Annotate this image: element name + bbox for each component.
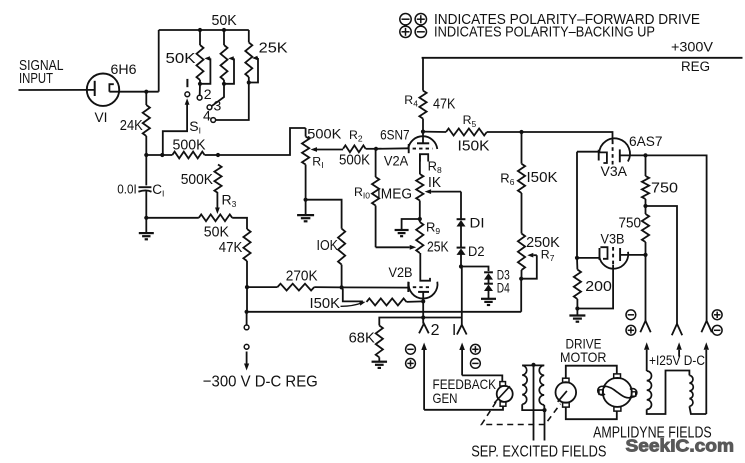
svg-text:4: 4 [203, 108, 211, 124]
terminal arrow up right [461, 350, 463, 375]
diode D1 [457, 218, 466, 220]
pot R7 wiper bracket [521, 255, 537, 279]
tube V3B grid dashes [612, 247, 614, 265]
gen brush slash [494, 386, 510, 403]
wire V1 cathode to node [109, 91, 158, 93]
polarity right chevron1 [626, 310, 636, 320]
wire arrow2 to gen top [462, 375, 502, 381]
ground C1 [145, 218, 147, 233]
wire 50K pots rail [159, 29, 249, 31]
svg-text:2: 2 [431, 322, 440, 339]
svg-text:−300 V D-C REG: −300 V D-C REG [203, 373, 318, 390]
tube V2A cathode [420, 154, 428, 161]
node D2 bottom [459, 264, 463, 268]
contact 3 [212, 84, 225, 106]
node R2 right [374, 147, 378, 151]
tube V3B left element [577, 257, 599, 259]
svg-text:6H6: 6H6 [111, 61, 137, 77]
svg-text:0.0I: 0.0I [117, 183, 137, 197]
motor armature [556, 382, 577, 403]
tube V2A plate [422, 132, 424, 144]
wire +300V rail [422, 57, 743, 59]
svg-text:SeekIC.com: SeekIC.com [626, 435, 735, 455]
node bus2 V2B [421, 315, 425, 319]
node R7 bottom [519, 277, 523, 281]
node S1 arm junction [160, 153, 164, 157]
wire bus1 [247, 311, 522, 313]
tube V3B right element [619, 248, 621, 261]
node V3B left [575, 256, 579, 260]
tube V3A right element [619, 149, 621, 162]
ground D4 [488, 291, 490, 299]
arrow amplidyne field right [705, 350, 707, 414]
node 47K bottom [245, 285, 249, 289]
pot R1 500K [305, 128, 307, 137]
contact 4 [216, 83, 249, 121]
svg-text:IK: IK [428, 174, 441, 191]
resistor R6 150K [521, 132, 523, 164]
wire to V3A grid [522, 132, 613, 141]
svg-text:47K: 47K [219, 239, 243, 256]
terminal 2 chevron [419, 324, 429, 334]
wire V3A left to V3B left [576, 152, 578, 258]
svg-text:I50K: I50K [458, 137, 490, 154]
resistor R8 1K [416, 174, 423, 201]
pot 150K [343, 289, 363, 302]
sep excited field leads [533, 365, 535, 441]
resistor 68K [376, 326, 383, 358]
svg-text:270K: 270K [286, 267, 318, 284]
terminal chevron right3 [701, 321, 711, 333]
legend line 1 polarity symbols [400, 14, 411, 25]
amplidyne right brush loop [630, 389, 637, 397]
amplidyne S-curve [603, 386, 632, 398]
resistor R10 1MEG [375, 149, 377, 177]
node V2B cathode [421, 299, 425, 303]
svg-text:SEP. EXCITED FIELDS: SEP. EXCITED FIELDS [471, 444, 606, 461]
tube V1 6H6 envelope [87, 74, 119, 106]
tube V2A grid [408, 144, 410, 153]
svg-text:D4: D4 [497, 281, 510, 296]
wire arrow1 to gen bottom [424, 406, 503, 410]
wire V2B cathode to terminal 2 [422, 301, 424, 323]
svg-text:REG: REG [681, 59, 710, 75]
ground R1 [305, 200, 307, 215]
svg-text:47K: 47K [433, 95, 455, 112]
node rail pot2 [222, 28, 226, 32]
diode D3 [484, 271, 493, 273]
resistor R4 47K [422, 58, 424, 91]
pot R1 wiper [317, 149, 343, 151]
pot 150K wiper arrow [341, 303, 363, 306]
tube V3B envelope [599, 252, 628, 269]
node C1 bottom [144, 216, 148, 220]
wire V3B node down to chevron [645, 255, 647, 321]
contact 2 [199, 84, 201, 95]
tube V1 plate bar [94, 81, 96, 96]
arrow amplidyne field mid [678, 350, 680, 357]
svg-text:V3A: V3A [601, 163, 628, 179]
node R3 top [216, 153, 220, 157]
svg-text:I50K: I50K [527, 169, 558, 186]
node 24K top [144, 90, 148, 94]
svg-text:50K: 50K [212, 12, 237, 29]
resistor 10K [306, 200, 342, 229]
ground 68K [378, 357, 380, 361]
svg-text:24K: 24K [120, 117, 143, 134]
diode D4 [484, 283, 493, 285]
wire D2 node to terminal 1 [461, 267, 463, 325]
svg-text:I50K: I50K [310, 295, 341, 312]
tube V2B plate lead [420, 253, 430, 281]
svg-text:25K: 25K [259, 40, 288, 57]
svg-text:I: I [452, 322, 456, 339]
tube V3A left element [577, 151, 599, 153]
legend line 2 polarity symbols [400, 26, 411, 37]
svg-text:IMEG: IMEG [377, 185, 412, 202]
node 10K bottom [340, 285, 344, 289]
svg-text:MOTOR: MOTOR [560, 349, 607, 365]
svg-text:V2B: V2B [389, 264, 413, 280]
tube V3A envelope [599, 138, 630, 161]
terminal -300V circles [246, 312, 248, 325]
svg-text:750: 750 [651, 180, 678, 197]
svg-text:+I25V D-C: +I25V D-C [649, 353, 705, 369]
node 750 junction [643, 204, 647, 208]
wire grid V2A [376, 147, 409, 150]
svg-text:INDICATES POLARITY–BACKING U: INDICATES POLARITY–BACKING UP [434, 25, 655, 41]
wire signal input [19, 89, 95, 91]
svg-text:V2A: V2A [384, 153, 409, 169]
svg-text:500K: 500K [307, 127, 342, 143]
ground 200 [569, 314, 585, 316]
tube V2A envelope [408, 136, 437, 149]
svg-text:500K: 500K [173, 136, 206, 153]
resistor 24K [145, 92, 147, 105]
amplidyne field winding left [647, 371, 652, 409]
wire 750 junction right [646, 206, 678, 324]
arrow -300V [246, 352, 248, 364]
svg-text:+300V: +300V [671, 39, 714, 55]
switch S1 pivot contact [185, 92, 190, 97]
amplidyne left brush loop [598, 386, 605, 395]
tube V2B envelope [409, 282, 438, 299]
resistor R5 150K [423, 131, 446, 133]
node V2A plate [421, 130, 425, 134]
svg-text:DI: DI [470, 216, 485, 231]
svg-text:6AS7: 6AS7 [629, 133, 663, 149]
wire bus1 riser to R7 [520, 279, 522, 312]
svg-text:6SN7: 6SN7 [380, 126, 410, 142]
svg-text:VI: VI [95, 109, 108, 125]
polarity left pair [406, 344, 416, 354]
svg-text:500K: 500K [181, 171, 213, 188]
arrow amplidyne field left [646, 350, 648, 371]
tube V2B cathode [418, 291, 429, 293]
node V3A plate [643, 153, 647, 157]
tube V2B grid [407, 282, 409, 292]
svg-text:D2: D2 [468, 244, 485, 259]
pot R7 250K [518, 234, 525, 271]
terminal chevron right2 [672, 324, 682, 336]
svg-text:3: 3 [214, 97, 222, 113]
wire to R1 [218, 128, 306, 155]
wiper wire to R9 [376, 246, 410, 248]
polarity right chevron3 [712, 310, 722, 320]
sep excited field winding [522, 364, 544, 366]
wire bus2 [379, 318, 462, 326]
R8 wiper wire [431, 191, 461, 193]
mechanical coupling dashed [482, 402, 561, 425]
svg-text:750: 750 [619, 214, 642, 231]
node bus1 left [245, 310, 249, 314]
pot 50K #2 wiper bracket [233, 57, 235, 59]
svg-text:500K: 500K [339, 152, 370, 169]
wire grid V2B [342, 286, 409, 288]
svg-text:200: 200 [585, 278, 612, 295]
switch S1 contact 1 stub [186, 79, 188, 87]
pot 50K horizontal [146, 217, 199, 219]
switch S1 arm [185, 98, 190, 105]
motor brush slash [558, 391, 567, 402]
terminal chevron right1 [640, 321, 650, 333]
node C1 top [144, 153, 148, 157]
tube V1 cathode bracket [109, 84, 113, 92]
node R1 bottom [304, 198, 308, 202]
diode D2 [457, 247, 466, 249]
wire to D3 [461, 267, 489, 272]
resistor R9 25K [416, 222, 423, 253]
svg-text:IOK: IOK [317, 237, 339, 254]
amplidyne field winding right [689, 375, 693, 406]
resistor R2 500K [343, 145, 366, 152]
pot 50K #1 [199, 30, 201, 45]
svg-text:50K: 50K [166, 50, 196, 67]
tube V3B bottom lead [577, 265, 613, 309]
amplidyne armature [603, 378, 632, 407]
resistor 750 lower [645, 206, 647, 214]
svg-text:V3B: V3B [601, 230, 625, 246]
tube V3A grid dashes [612, 141, 614, 167]
resistor 500K upper [146, 154, 172, 156]
svg-text:GEN: GEN [433, 390, 458, 406]
ground R8 R9 junction [402, 219, 420, 230]
feedback gen armature [497, 386, 513, 402]
wire D1 D2 [460, 226, 462, 248]
node R6 top [519, 130, 523, 134]
resistor 200 [576, 258, 578, 270]
capacitor C1 [145, 155, 147, 185]
pot 25K [248, 30, 250, 42]
svg-text:INPUT: INPUT [19, 71, 53, 87]
pot 25K wiper bracket [257, 57, 260, 59]
motor loop wires [566, 366, 617, 379]
resistor 47K [243, 229, 250, 261]
node 200 bottom [575, 306, 579, 310]
wire 50K to 47K [232, 218, 247, 229]
svg-text:25K: 25K [427, 239, 449, 256]
resistor 270K [247, 286, 277, 288]
pot 50K #1 wiper bracket [209, 57, 212, 59]
wire plate node right [646, 155, 707, 320]
node rail pot1 [198, 28, 202, 32]
svg-text:2: 2 [204, 86, 212, 102]
resistor 750 upper [645, 155, 647, 176]
wire rail riser [158, 30, 160, 92]
terminal arrow up left [423, 350, 425, 410]
resistor R3 500K [214, 165, 221, 194]
pot 50K #2 [223, 30, 225, 45]
node V3B plate [643, 253, 647, 257]
svg-text:68K: 68K [349, 329, 375, 346]
polarity right pair [471, 344, 481, 354]
terminal 1 chevron [457, 325, 467, 335]
node R8 R9 junction [419, 201, 421, 223]
